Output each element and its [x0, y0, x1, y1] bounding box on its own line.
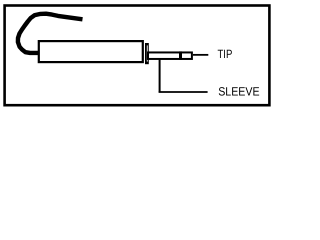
svg-text:TIP: TIP: [218, 47, 233, 61]
svg-text:SLEEVE: SLEEVE: [218, 85, 259, 99]
